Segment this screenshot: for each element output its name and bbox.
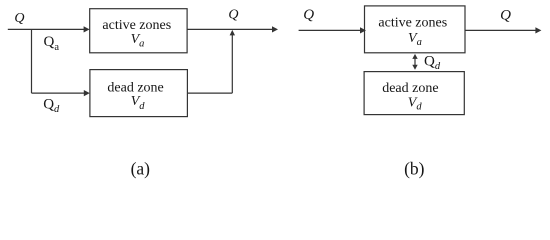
svg-text:Vd: Vd — [131, 94, 146, 112]
svg-text:Va: Va — [131, 32, 145, 49]
svg-text:dead zone: dead zone — [382, 81, 438, 96]
wire: (a) output line — [187, 28, 272, 30]
wire: (a) lower branch horizontal to dead zone — [32, 92, 85, 94]
svg-text:Vd: Vd — [408, 95, 423, 112]
svg-text:Qd: Qd — [424, 54, 441, 72]
wire: (a) dead zone output horizontal — [187, 92, 232, 94]
block: (b) dead zone box — [364, 72, 464, 115]
block: (a) dead zone box — [90, 70, 187, 117]
block: (a) active zones box — [90, 9, 187, 53]
wire: (a) input line Q — [8, 28, 84, 30]
arrowhead: (a) feedback up into output line — [230, 30, 235, 36]
svg-text:(a): (a) — [131, 158, 151, 178]
svg-text:Qd: Qd — [43, 96, 60, 115]
arrowhead: (b) input into active zones box — [360, 27, 366, 33]
svg-text:active zones: active zones — [378, 15, 447, 30]
arrowhead: (b) output line tip — [535, 27, 541, 33]
wire: (b) exchange arrow shaft Qd — [414, 58, 416, 65]
svg-text:Q: Q — [228, 8, 238, 23]
wire: (a) branch vertical from input node — [31, 29, 33, 93]
arrowhead: (b) exchange arrow up — [412, 54, 417, 59]
arrowhead: (a) input into active zones box — [84, 26, 90, 32]
svg-text:Q: Q — [14, 11, 24, 26]
arrowhead: (a) lower branch into dead zone box — [84, 90, 90, 96]
svg-text:Q: Q — [500, 8, 511, 24]
wire: (a) feedback vertical up to output line — [231, 35, 233, 93]
svg-text:(b): (b) — [404, 158, 425, 178]
arrowhead: (b) exchange arrow down — [412, 65, 417, 70]
svg-text:Q: Q — [303, 7, 314, 23]
svg-text:Va: Va — [408, 31, 422, 48]
wire: (b) input line Q — [299, 29, 361, 31]
block: (b) active zones box — [365, 6, 466, 53]
svg-text:Qa: Qa — [44, 34, 60, 53]
wire: (b) output line — [465, 29, 536, 31]
svg-text:active zones: active zones — [102, 18, 171, 33]
arrowhead: (a) output line tip — [272, 26, 278, 32]
